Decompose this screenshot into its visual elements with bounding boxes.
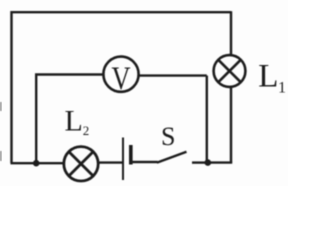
svg-text:1: 1 xyxy=(278,79,286,96)
voltmeter U1 xyxy=(103,57,138,92)
wire: bottom-right segment xyxy=(207,161,232,163)
battery cell: short thick plate xyxy=(129,145,133,165)
wire: L1 bottom vertical xyxy=(230,88,232,163)
wire: top side of outer loop xyxy=(11,11,232,13)
svg-text:2: 2 xyxy=(83,123,90,138)
wire: voltmeter branch left horizontal xyxy=(35,73,103,75)
wire: voltmeter branch right vertical xyxy=(206,76,208,163)
svg-text:S: S xyxy=(161,122,175,151)
wire: top-right vertical into L1 xyxy=(230,11,232,54)
svg-text:L: L xyxy=(65,104,83,137)
wire: voltmeter branch left vertical xyxy=(35,75,37,164)
junction node: left (dot) xyxy=(33,160,40,167)
lamp L2 xyxy=(64,147,98,181)
scan artifact: left edge marks xyxy=(0,102,2,161)
svg-text:V: V xyxy=(112,61,131,97)
svg-text:L: L xyxy=(258,58,278,94)
switch S blade (open) xyxy=(157,152,187,163)
wire: L2 to battery xyxy=(100,161,123,163)
wire: voltmeter branch right horizontal xyxy=(140,74,207,76)
wire: switch right contact stub xyxy=(192,161,208,163)
battery cell: long plate xyxy=(122,138,124,181)
wire: bottom-left segment from corner to L2 xyxy=(11,162,64,164)
junction node: right (dot) xyxy=(205,159,212,166)
wire: battery to switch pivot xyxy=(133,161,158,163)
wire: left side of outer loop xyxy=(10,11,12,163)
lamp L1 xyxy=(214,55,246,87)
